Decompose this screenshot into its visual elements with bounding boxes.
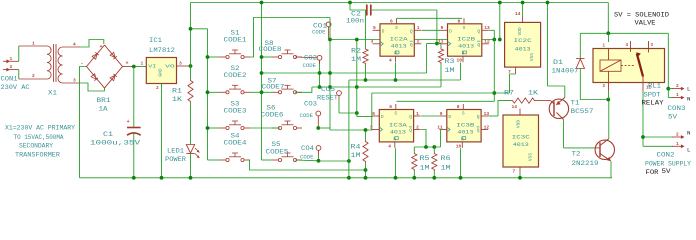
- connector CON2: [643, 136, 673, 138]
- svg-text:6: 6: [389, 104, 392, 110]
- net y93: [372, 92, 510, 94]
- svg-text:IC3C: IC3C: [512, 134, 531, 141]
- svg-text:L: L: [687, 147, 691, 154]
- net reset y80: [349, 79, 461, 81]
- svg-text:CODE5: CODE5: [266, 149, 289, 156]
- svg-text:IC3B: IC3B: [456, 121, 475, 128]
- svg-text:2: 2: [32, 73, 35, 79]
- svg-text:CODE: CODE: [300, 112, 314, 119]
- connector pad CO1: [326, 22, 331, 27]
- svg-text:1: 1: [676, 141, 679, 147]
- svg-text:CO5: CO5: [321, 86, 335, 93]
- svg-text:R6: R6: [441, 155, 451, 162]
- svg-text:1: 1: [10, 56, 13, 62]
- svg-text:LED1: LED1: [167, 148, 184, 155]
- svg-text:100n: 100n: [346, 18, 364, 25]
- switch S6: [272, 127, 279, 129]
- svg-text:3: 3: [370, 124, 373, 130]
- switch S5: [262, 159, 273, 161]
- svg-text:CODE4: CODE4: [224, 140, 247, 147]
- connector CON3: [667, 33, 669, 97]
- switch S8: [262, 56, 273, 58]
- junction +12V: [189, 64, 193, 68]
- svg-text:10: 10: [457, 58, 463, 64]
- svg-text:1M: 1M: [351, 152, 361, 159]
- switch S4: [208, 159, 220, 161]
- svg-text:S6: S6: [267, 105, 276, 112]
- transformer X1: [18, 46, 20, 61]
- svg-text:SPDT: SPDT: [644, 92, 661, 99]
- wire bridge minus to ground: [80, 67, 87, 178]
- svg-text:CON1: CON1: [1, 76, 18, 83]
- svg-text:CODE: CODE: [312, 29, 326, 36]
- svg-text:VO: VO: [165, 63, 175, 69]
- svg-text:RL1: RL1: [648, 83, 661, 90]
- junction +12V unregulated: [132, 65, 136, 69]
- svg-text:BC557: BC557: [571, 108, 594, 115]
- switch S3: [208, 127, 220, 129]
- svg-text:Q: Q: [477, 42, 480, 48]
- svg-text:1: 1: [676, 92, 679, 98]
- svg-text:8: 8: [457, 104, 460, 110]
- svg-text:S: S: [463, 25, 466, 31]
- top +12V rail: [191, 2, 609, 4]
- svg-text:-: -: [81, 61, 84, 67]
- svg-text:4013: 4013: [458, 43, 474, 50]
- svg-text:+: +: [100, 44, 103, 50]
- transistor T2 2N2219: [564, 147, 596, 149]
- wire +12V to relay nets: [607, 3, 609, 34]
- svg-text:5V: 5V: [668, 114, 677, 121]
- svg-text:SV = SOLENOID: SV = SOLENOID: [614, 12, 669, 19]
- svg-text:CODE6: CODE6: [261, 112, 284, 119]
- switch S7: [262, 91, 273, 93]
- relay RL1: [593, 49, 665, 83]
- net CODE1: [330, 39, 494, 41]
- regulator IC1 LM7812: [146, 58, 176, 84]
- svg-text:CON3: CON3: [668, 105, 686, 112]
- svg-text:8: 8: [458, 18, 461, 24]
- svg-text:R7: R7: [504, 90, 514, 97]
- svg-text:R1: R1: [172, 88, 182, 95]
- svg-text:D1: D1: [553, 59, 563, 66]
- power section IC2C 4013: [505, 22, 541, 67]
- svg-text:2: 2: [676, 132, 679, 138]
- svg-text:7: 7: [513, 169, 516, 175]
- svg-text:1: 1: [141, 61, 144, 67]
- net S pins IC2A/IC2B: [397, 17, 463, 19]
- svg-text:1K: 1K: [172, 96, 182, 103]
- svg-text:S: S: [462, 111, 465, 117]
- svg-text:1K: 1K: [528, 90, 538, 97]
- op-amp? flip-flop IC2A 4013: [380, 24, 414, 56]
- switch S2: [208, 91, 220, 93]
- svg-text:230V AC: 230V AC: [1, 84, 30, 91]
- svg-text:SECONDARY: SECONDARY: [19, 143, 53, 150]
- resistor R7: [511, 98, 536, 103]
- svg-text:9: 9: [440, 111, 443, 117]
- svg-text:N: N: [687, 96, 691, 103]
- svg-text:R4: R4: [351, 144, 361, 151]
- svg-text:4: 4: [389, 58, 392, 64]
- svg-text:Q: Q: [477, 128, 480, 134]
- svg-text:4: 4: [388, 143, 391, 149]
- svg-text:BR1: BR1: [97, 97, 111, 104]
- wire Q1 to D9: [422, 29, 440, 31]
- IC3C VSS pin: [519, 167, 521, 172]
- resistor R6: [433, 147, 435, 152]
- resistor R5: [413, 147, 415, 152]
- svg-text:1M: 1M: [351, 56, 361, 63]
- svg-text:CODE2: CODE2: [224, 72, 247, 79]
- svg-text:T2: T2: [572, 151, 581, 158]
- svg-text:7: 7: [508, 69, 511, 75]
- wire S4 right: [248, 160, 366, 170]
- flip-flop IC2B 4013: [448, 24, 482, 56]
- svg-text:4013: 4013: [515, 45, 532, 52]
- svg-text:2: 2: [10, 64, 13, 70]
- svg-text:14: 14: [512, 104, 518, 110]
- svg-text:L: L: [687, 86, 691, 93]
- svg-text:Q: Q: [409, 114, 412, 120]
- wire pin3 to bridge AC2: [80, 83, 104, 91]
- flip-flop IC3A 4013: [379, 110, 413, 142]
- svg-text:1A: 1A: [99, 106, 108, 113]
- svg-text:Q: Q: [410, 42, 413, 48]
- svg-text:6: 6: [390, 18, 393, 24]
- svg-text:1: 1: [32, 41, 35, 47]
- svg-text:5: 5: [373, 25, 376, 31]
- svg-text:2: 2: [676, 83, 679, 89]
- svg-text:R2: R2: [351, 48, 361, 55]
- svg-text:S5: S5: [272, 141, 281, 148]
- net y73: [262, 72, 427, 74]
- svg-text:Q: Q: [410, 28, 413, 34]
- svg-text:4013: 4013: [513, 141, 530, 148]
- svg-text:S1: S1: [231, 30, 240, 37]
- svg-text:VSS: VSS: [527, 153, 533, 161]
- svg-text:CODE8: CODE8: [259, 46, 282, 53]
- resistor R1: [190, 66, 192, 79]
- svg-text:RESET: RESET: [317, 94, 338, 101]
- svg-text:1: 1: [416, 111, 419, 117]
- wire bridge plus node: [123, 66, 134, 68]
- svg-text:4013: 4013: [391, 43, 407, 50]
- svg-text:POWER: POWER: [165, 156, 186, 163]
- IC3C VDD pin: [519, 109, 521, 116]
- svg-text:S2: S2: [231, 65, 240, 72]
- net CO4 to ground: [319, 160, 349, 162]
- IC2C VSS pin: [515, 67, 517, 74]
- svg-text:S: S: [394, 111, 397, 117]
- svg-text:S: S: [395, 25, 398, 31]
- svg-text:R5: R5: [420, 155, 430, 162]
- svg-text:TRANSFORMER: TRANSFORMER: [15, 152, 60, 159]
- capacitor C1: [133, 67, 135, 128]
- transistor T1 BC557: [536, 100, 551, 102]
- svg-text:X1=230V AC PRIMARY: X1=230V AC PRIMARY: [5, 125, 75, 132]
- svg-text:+: +: [127, 119, 130, 125]
- svg-text:POWER SUPPLY: POWER SUPPLY: [645, 161, 691, 168]
- wire Q13 IC2B: [489, 29, 494, 31]
- svg-text:GND: GND: [158, 68, 164, 77]
- svg-text:D: D: [382, 28, 385, 34]
- wire S2 right: [250, 91, 262, 93]
- wire from top rail x499.8: [499, 3, 501, 40]
- svg-text:N: N: [687, 130, 691, 137]
- svg-text:11: 11: [437, 124, 443, 130]
- svg-text:C2: C2: [351, 11, 361, 18]
- svg-text:D: D: [381, 114, 384, 120]
- svg-text:T1: T1: [571, 100, 580, 107]
- connector pad CO2: [317, 55, 322, 60]
- wire Q13 IC3B to R7: [488, 115, 498, 117]
- svg-text:CODE7: CODE7: [262, 84, 285, 91]
- relay coil pins: [608, 33, 610, 42]
- svg-text:D: D: [448, 114, 451, 120]
- svg-text:CON2: CON2: [657, 152, 675, 159]
- bottom ground rail: [80, 177, 613, 179]
- connector pad CO4: [316, 146, 321, 151]
- svg-text:X1: X1: [48, 90, 57, 97]
- wire S3 right to S6 left: [250, 127, 280, 129]
- svg-text:IC2A: IC2A: [390, 36, 409, 43]
- wire Q1 IC3A to D9 IC3B: [421, 115, 439, 117]
- junction CO1: [328, 38, 332, 42]
- wire pin4 to bridge: [80, 40, 104, 48]
- IC3A reset to ground: [395, 148, 397, 178]
- connector pad CO3: [316, 111, 321, 116]
- svg-text:12: 12: [484, 124, 490, 130]
- connector CON1 pin 2: [3, 69, 9, 71]
- capacitor C2: [348, 1, 352, 5]
- clock node IC2B: [435, 42, 439, 46]
- svg-text:CO4: CO4: [301, 145, 314, 152]
- wire S8 right to CO2: [295, 56, 317, 59]
- svg-text:CODE: CODE: [300, 153, 314, 160]
- svg-text:1N4007: 1N4007: [552, 68, 579, 75]
- svg-text:R3: R3: [445, 58, 455, 65]
- svg-text:IC3A: IC3A: [389, 121, 408, 128]
- svg-text:D: D: [449, 28, 452, 34]
- wire S1 right to CO1: [250, 18, 330, 58]
- svg-text:CODE: CODE: [303, 62, 317, 69]
- wire bus S1-S4: [191, 28, 208, 30]
- relay common pin: [642, 83, 644, 92]
- connector CON1 pin 1: [3, 60, 9, 62]
- svg-text:CODE1: CODE1: [224, 37, 247, 44]
- svg-text:4: 4: [73, 42, 76, 48]
- resistor R3: [437, 43, 441, 45]
- IC1 VO wire: [177, 65, 191, 67]
- svg-text:4013: 4013: [390, 128, 406, 135]
- svg-text:1: 1: [417, 25, 420, 31]
- svg-text:IC1: IC1: [149, 37, 162, 44]
- net S6 to IC3A clock: [318, 127, 330, 129]
- switch S1: [208, 56, 220, 58]
- IC3B reset to ground: [460, 148, 462, 178]
- svg-text:2: 2: [417, 39, 420, 45]
- power section IC3C 4013: [503, 115, 539, 167]
- svg-text:LM7812: LM7812: [149, 47, 175, 54]
- svg-text:4013: 4013: [457, 128, 473, 135]
- svg-text:+: +: [126, 61, 129, 67]
- svg-text:5V: 5V: [662, 168, 671, 175]
- wire S7 right: [295, 87, 312, 92]
- svg-text:TO 15VAC,500MA: TO 15VAC,500MA: [14, 134, 64, 141]
- svg-text:9: 9: [441, 25, 444, 31]
- svg-text:1000u,35V: 1000u,35V: [90, 140, 140, 147]
- connector pad CO5: [337, 91, 342, 96]
- svg-text:5: 5: [372, 111, 375, 117]
- wire S5 right to CO4: [295, 159, 319, 162]
- svg-text:1M: 1M: [441, 165, 451, 172]
- svg-text:CODE3: CODE3: [224, 108, 247, 115]
- wire bus S8-S5: [261, 3, 263, 161]
- svg-text:FOR: FOR: [646, 169, 659, 176]
- svg-text:VSS: VSS: [529, 53, 535, 61]
- svg-text:2N2219: 2N2219: [572, 160, 599, 167]
- svg-text:IC2B: IC2B: [457, 36, 476, 43]
- svg-text:C1: C1: [103, 131, 113, 138]
- svg-text:CO2: CO2: [304, 55, 317, 62]
- svg-text:12: 12: [484, 39, 490, 45]
- svg-text:3: 3: [73, 78, 76, 84]
- svg-text:Q: Q: [477, 114, 480, 120]
- svg-text:14: 14: [515, 11, 521, 17]
- bridge rectifier BR1: [87, 45, 123, 88]
- svg-text:1M: 1M: [420, 165, 430, 172]
- svg-text:3: 3: [371, 39, 374, 45]
- svg-text:CO3: CO3: [304, 101, 317, 108]
- svg-text:2: 2: [416, 124, 419, 130]
- flip-flop IC3B 4013: [447, 110, 481, 142]
- svg-text:RELAY: RELAY: [642, 100, 664, 107]
- svg-text:Q: Q: [409, 128, 412, 134]
- net S pins IC3A/IC3B: [397, 100, 495, 102]
- resistor R2: [365, 10, 367, 48]
- svg-text:VI: VI: [148, 63, 156, 69]
- svg-text:2: 2: [156, 85, 159, 91]
- diode D1 1N4007: [579, 33, 581, 58]
- IC2C VDD pin: [522, 3, 524, 17]
- svg-text:Q: Q: [477, 28, 480, 34]
- svg-text:1M: 1M: [445, 67, 455, 74]
- svg-text:S4: S4: [231, 133, 240, 140]
- net y87: [312, 86, 441, 88]
- svg-text:VDD: VDD: [515, 120, 521, 128]
- svg-text:VALVE: VALVE: [635, 20, 656, 27]
- LED LED1: [190, 103, 192, 145]
- svg-text:VDD: VDD: [517, 27, 523, 35]
- IC1 GND wire: [161, 84, 163, 178]
- resistor R4: [365, 130, 367, 140]
- svg-text:S3: S3: [231, 101, 240, 108]
- svg-text:IC2C: IC2C: [514, 37, 533, 44]
- wire Qbar IC3A to clock IC3B + R5 R6: [421, 130, 426, 148]
- svg-text:11: 11: [438, 39, 444, 45]
